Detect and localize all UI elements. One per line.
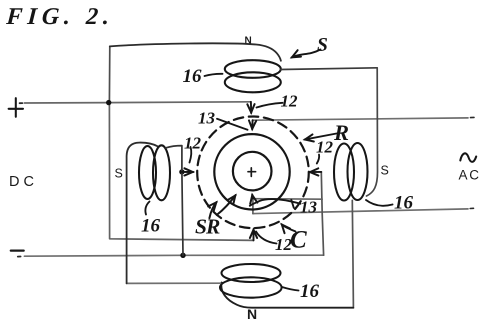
wire tick AC bottom end — [470, 207, 473, 209]
rotor dashed stator ring 12 — [197, 117, 309, 229]
svg-text:16: 16 — [300, 281, 320, 302]
wire right riser feeding S coil — [367, 68, 378, 196]
DC - terminal — [11, 250, 24, 252]
DC + terminal — [9, 98, 23, 117]
wire left coil exit down to minus — [166, 146, 183, 256]
AC source symbol ~ — [460, 153, 476, 162]
svg-text:S: S — [115, 167, 123, 181]
rotor center + — [248, 168, 256, 177]
svg-text:S: S — [381, 164, 389, 178]
field coil 16 (bottom, N pole) — [222, 264, 281, 282]
wire tick at DC minus start — [18, 256, 21, 258]
svg-text:N: N — [245, 36, 252, 47]
svg-text:13: 13 — [198, 109, 216, 128]
svg-text:S: S — [317, 35, 328, 56]
pole arrow bottom (12) — [253, 229, 255, 240]
rotor ring 13 — [214, 134, 289, 209]
wire tick at DC plus start — [20, 102, 23, 104]
wire top coil exit to right — [281, 68, 377, 70]
svg-text:DC: DC — [9, 174, 38, 190]
svg-text:N: N — [247, 306, 257, 322]
SR arrow B to core — [217, 195, 236, 215]
svg-text:12: 12 — [281, 92, 299, 111]
svg-text:AC: AC — [459, 168, 481, 183]
arrow AC-top to ring 13 — [251, 120, 253, 129]
svg-text:FIG. 2.: FIG. 2. — [5, 4, 115, 30]
rotor core circle — [233, 152, 272, 191]
wire DC box left lower vertical — [109, 103, 253, 241]
junction dot left arrow tap — [179, 169, 184, 174]
wire C-box left vertical — [252, 199, 254, 214]
wire DC minus horizontal — [24, 255, 323, 256]
wire DC plus horizontal — [24, 102, 250, 103]
wire C-box top edge — [253, 198, 322, 201]
wire minus riser to right arrow — [321, 172, 323, 255]
field coil 16 (top, N pole) — [225, 60, 281, 78]
wire bottom coil outer loop to riser — [221, 283, 353, 308]
svg-text:12: 12 — [316, 138, 334, 157]
svg-text:16: 16 — [394, 193, 414, 214]
wire AC bottom — [253, 209, 468, 214]
svg-text:16: 16 — [141, 216, 161, 237]
svg-text:13: 13 — [300, 198, 318, 217]
junction dot on minus line — [180, 253, 185, 258]
field coil 16 (right, S pole) — [334, 144, 354, 201]
svg-text:12: 12 — [184, 134, 202, 153]
wire left box vertical — [108, 46, 110, 102]
wire left coil feed riser — [127, 143, 158, 284]
field coil 16 (left, S pole) — [139, 146, 156, 199]
wire bottom coil left feed — [127, 282, 221, 284]
arrow to inner core from C-box corner — [251, 195, 254, 199]
wire top feed to N coil — [110, 43, 281, 60]
svg-text:16: 16 — [183, 66, 203, 87]
pole arrow top (12) — [250, 102, 252, 113]
svg-text:R: R — [333, 120, 349, 145]
wire right coil exit down — [352, 200, 353, 306]
wire tick AC top end — [471, 116, 475, 118]
svg-text:12: 12 — [275, 235, 293, 254]
junction dot DC plus — [106, 100, 111, 105]
pole arrow left (12) — [182, 171, 193, 173]
pole arrow right (12) — [310, 171, 322, 173]
wire AC top — [253, 118, 468, 120]
SR arrow A to ring 13 — [209, 202, 216, 218]
svg-text:SR: SR — [195, 215, 220, 239]
